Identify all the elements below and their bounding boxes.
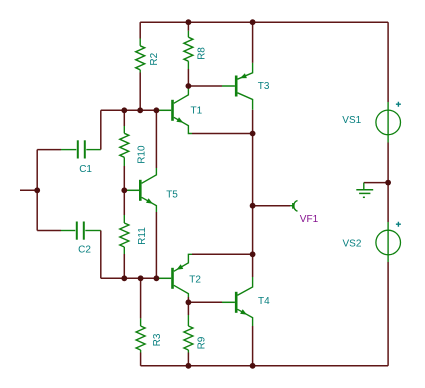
svg-text:VF1: VF1 (300, 214, 319, 225)
transistor T5 (126, 168, 156, 212)
VS2 plus polarity mark (396, 222, 401, 227)
junction dot VF1 tap (250, 203, 256, 209)
junction dot R10 top (121, 107, 127, 113)
wire T3 base link (188, 85, 222, 87)
capacitor C1 (61, 140, 101, 158)
wire top supply rail (140, 21, 388, 23)
svg-text:R11: R11 (137, 227, 148, 245)
wire R11 top link (123, 190, 125, 215)
svg-text:T2: T2 (189, 274, 201, 285)
junction dot R2 bottom (137, 107, 143, 113)
junction dot T5 emitter (154, 275, 160, 281)
junction dot ground node (385, 180, 391, 186)
junction dot T2 collector / R9 / T4 base (186, 299, 192, 305)
wire upper base row (101, 109, 157, 111)
transistor T1 (157, 86, 192, 134)
svg-text:VS1: VS1 (342, 115, 361, 126)
junction dot R3 top (138, 275, 144, 281)
junction dot T4 emitter bottom (250, 363, 256, 369)
capacitor C2 (61, 222, 101, 240)
junction dot T3 emitter rail tap (250, 19, 256, 25)
resistor R3 (136, 318, 145, 352)
svg-text:C1: C1 (79, 164, 92, 175)
svg-text:T5: T5 (166, 189, 178, 200)
wire R9 bottom link (187, 353, 189, 366)
resistor R9 (184, 315, 193, 353)
wire R8 bottom link (187, 69, 189, 86)
junction dot R8 / T1 collector / T3 base (186, 83, 192, 89)
wire C2 output descender (100, 231, 102, 279)
svg-text:T1: T1 (191, 106, 203, 117)
junction dot R11 bottom / C2 (121, 275, 127, 281)
wire T2 emitter row to output column (192, 253, 253, 255)
wire C1 left lead-in (37, 149, 61, 151)
wire R2 top link (139, 22, 141, 38)
wire R3 top link (140, 278, 142, 318)
junction dot input node (34, 187, 40, 193)
wire input stub (20, 189, 37, 191)
junction dot T5 collector (154, 107, 160, 113)
transistor T3 (222, 63, 253, 110)
svg-text:R2: R2 (149, 52, 160, 65)
junction dot output node lower (250, 251, 256, 257)
wire VF1 stub (253, 205, 290, 207)
junction dot output node upper (250, 131, 256, 137)
wire left column (C1 row to C2 row) (36, 150, 38, 231)
VS1 plus polarity mark (396, 102, 401, 107)
wire right column middle (VS1 to VS2) (387, 143, 389, 223)
wire bottom rail (141, 365, 389, 367)
svg-text:T3: T3 (258, 81, 270, 92)
resistor R8 (184, 31, 193, 69)
wire R10 top link (123, 110, 125, 126)
resistor R2 (136, 39, 145, 73)
svg-text:R3: R3 (152, 333, 163, 346)
wire right column lower (VS2 to bottom rail) (387, 262, 389, 366)
svg-text:R10: R10 (136, 145, 147, 164)
wire R11 bottom link (123, 254, 125, 278)
voltage probe VF1 (290, 201, 298, 212)
wire T4 base link (188, 301, 222, 303)
wire T3 collector to output node (252, 110, 254, 134)
svg-text:T4: T4 (258, 296, 270, 307)
voltage source VS2 (376, 222, 401, 262)
wire T5 collector to upper base row (155, 110, 157, 168)
svg-text:R8: R8 (197, 47, 208, 60)
wire C2 left lead-in (37, 230, 61, 232)
wire R9 top link (187, 302, 189, 315)
wire right column upper (rail to VS1) (387, 22, 389, 102)
resistor R11 (120, 215, 129, 254)
transistor T2 (157, 254, 192, 297)
svg-text:VS2: VS2 (343, 239, 362, 250)
transistor T4 (222, 277, 253, 326)
resistor R10 (120, 126, 129, 166)
svg-text:R9: R9 (196, 336, 207, 349)
wire T4 emitter to bottom rail (252, 326, 254, 366)
junction dot R8 top (186, 19, 192, 25)
wire R3 bottom link (140, 353, 142, 366)
wire C1 output riser (100, 110, 102, 149)
wire ground branch (364, 182, 388, 184)
wire R10 bottom link (123, 166, 125, 190)
wire output column (252, 134, 254, 278)
wire T2 collector link (187, 297, 189, 302)
wire R2 bottom link (139, 73, 141, 111)
voltage source VS1 (376, 102, 401, 143)
junction dot R9 bottom (186, 363, 192, 369)
wire R8 top link (187, 22, 189, 31)
ground (356, 183, 373, 198)
wire lower base row (101, 277, 157, 279)
wire T5 emitter to lower base row (155, 212, 157, 278)
wire T1 emitter to output column (192, 133, 253, 135)
svg-text:C2: C2 (78, 245, 91, 256)
junction dot T5 base / R10-R11 (121, 187, 127, 193)
wire T3 emitter to top rail (252, 22, 254, 63)
